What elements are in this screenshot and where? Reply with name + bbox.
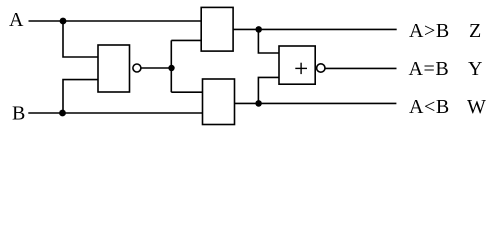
svg-text:A<B: A<B	[409, 96, 450, 118]
svg-text:W: W	[467, 96, 486, 118]
svg-text:Z: Z	[469, 20, 481, 42]
svg-text:Y: Y	[468, 58, 482, 80]
svg-text:A>B: A>B	[409, 20, 450, 42]
svg-text:B: B	[12, 103, 25, 125]
svg-text:A: A	[9, 9, 24, 31]
svg-text:A=B: A=B	[409, 58, 450, 80]
